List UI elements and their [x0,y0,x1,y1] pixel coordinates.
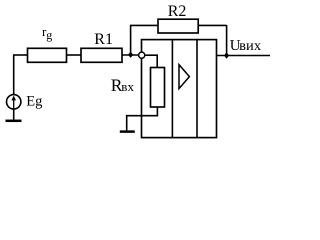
amplifier block internal vertical 2 [196,40,198,138]
svg-text:Eg: Eg [26,94,42,110]
amplifier block outer rectangle [142,40,217,138]
source Eg arrow [13,97,15,108]
junction dot (output node) [224,52,229,58]
output wire [217,55,271,57]
resistor rg [28,48,67,62]
resistor R1 [81,48,122,62]
wire Eg bottom to ground [13,109,15,120]
source Eg circle [7,95,21,109]
wire R2-to-output vertical [198,25,226,56]
junction dot (R1/R2 node) [128,52,133,58]
wire feedback left vertical (junction up to R2) [130,25,132,55]
wire to R2 left [130,24,158,26]
wire Rvx bottom to ground [127,107,158,130]
svg-text:вх: вх [121,79,134,94]
svg-text:R1: R1 [94,31,113,48]
ground (amplifier input) [120,130,135,133]
resistor Rvx (vertical) [151,68,165,108]
wire left vertical from source Eg up to rg [13,55,15,95]
ground (under Eg) [6,120,22,123]
wire input-circle to Rvx top [145,55,157,67]
svg-text:g: g [46,28,52,42]
amplifier block internal vertical 1 [171,40,173,138]
svg-text:вих: вих [239,38,262,54]
amplifier triangle [179,65,189,89]
svg-text:R2: R2 [168,3,187,20]
wire rg-to-R1 [67,54,82,56]
input node open circle [139,52,145,58]
resistor R2 [158,19,198,33]
wire R1-to-input-circle [122,54,139,56]
wire Eg-to-rg horizontal [13,54,28,56]
